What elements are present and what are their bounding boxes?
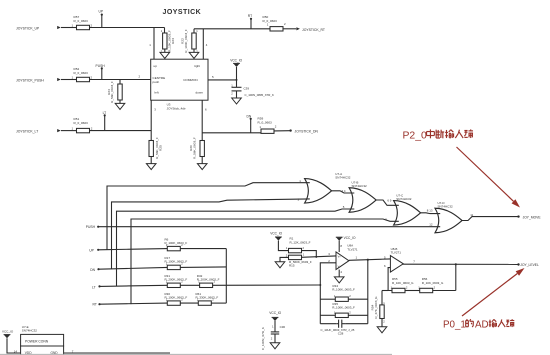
svg-text:SN74HC32: SN74HC32	[22, 328, 38, 332]
svg-text:C_100N_X7R_K: C_100N_X7R_K	[261, 326, 265, 350]
svg-text:VCC_IO: VCC_IO	[230, 58, 242, 62]
svg-text:JOY_LEVEL: JOY_LEVEL	[520, 263, 539, 267]
svg-text:POWER CONN: POWER CONN	[25, 340, 49, 344]
svg-text:push: push	[153, 80, 160, 84]
svg-text:SN74HC32: SN74HC32	[335, 175, 351, 179]
svg-text:R_100K_0603_F: R_100K_0603_F	[332, 288, 355, 292]
svg-text:COMMON: COMMON	[183, 78, 197, 82]
svg-text:UP: UP	[99, 10, 104, 14]
svg-text:R_0_0603: R_0_0603	[258, 121, 273, 125]
svg-text:JOYSTICK_DN: JOYSTICK_DN	[295, 130, 319, 134]
svg-text:JOYSTICK_PUSH: JOYSTICK_PUSH	[16, 78, 44, 82]
svg-text:11: 11	[470, 213, 473, 217]
svg-text:R20: R20	[189, 145, 193, 151]
svg-text:R25: R25	[158, 145, 162, 151]
svg-text:JOY_MOVE: JOY_MOVE	[523, 215, 542, 219]
svg-text:left: left	[155, 90, 159, 94]
svg-text:LT: LT	[103, 111, 107, 115]
svg-text:R_10K_0603_G: R_10K_0603_G	[422, 281, 444, 285]
svg-text:right: right	[194, 64, 200, 68]
svg-text:P2_0: P2_0	[403, 130, 427, 141]
svg-text:R_100K_0603_F: R_100K_0603_F	[165, 241, 188, 245]
svg-text:3 4: 3 4	[342, 189, 346, 193]
svg-text:PUSH: PUSH	[86, 225, 96, 229]
svg-text:JOYStick_4dir: JOYStick_4dir	[167, 106, 186, 110]
svg-text:R23: R23	[171, 38, 175, 44]
svg-text:R_0_0603: R_0_0603	[74, 71, 89, 75]
svg-text:12: 12	[429, 223, 433, 227]
svg-text:R54: R54	[371, 304, 375, 310]
svg-text:R_56K_0603_F: R_56K_0603_F	[193, 137, 197, 159]
svg-text:SN74HC32: SN74HC32	[352, 184, 368, 188]
svg-text:JOYSTICK_LT: JOYSTICK_LT	[16, 129, 38, 133]
svg-text:R24: R24	[107, 89, 111, 95]
svg-text:AD: AD	[475, 319, 489, 330]
svg-text:V-: V-	[338, 265, 341, 268]
svg-text:R_12K_0603_F: R_12K_0603_F	[290, 240, 311, 244]
svg-text:SN74HC32: SN74HC32	[396, 197, 412, 201]
svg-text:R22: R22	[180, 38, 184, 44]
svg-text:C39: C39	[244, 86, 250, 90]
svg-text:TLV271: TLV271	[347, 247, 358, 251]
svg-text:R_100K_0603_F: R_100K_0603_F	[165, 260, 188, 264]
svg-text:UP: UP	[89, 249, 94, 253]
svg-text:VCC_IO: VCC_IO	[344, 236, 356, 240]
svg-text:6 9: 6 9	[387, 199, 391, 203]
svg-text:R_200K_0603_F: R_200K_0603_F	[165, 278, 188, 282]
svg-text:R_0_0603: R_0_0603	[74, 121, 89, 125]
svg-text:TLV271: TLV271	[391, 251, 402, 255]
svg-text:R_47K_0603_G: R_47K_0603_G	[374, 296, 378, 319]
svg-text:JOYSTICK_UP: JOYSTICK_UP	[16, 26, 40, 30]
svg-text:V+: V+	[338, 255, 342, 258]
svg-text:RT: RT	[93, 303, 97, 307]
svg-text:PUSH: PUSH	[96, 64, 106, 68]
svg-text:R_0_0603: R_0_0603	[263, 19, 278, 23]
svg-text:JOYSTICK: JOYSTICK	[163, 9, 202, 16]
svg-text:R_10K_0603_G: R_10K_0603_G	[392, 281, 414, 285]
svg-text:C30: C30	[280, 325, 286, 329]
svg-text:R_100K_0603_F: R_100K_0603_F	[184, 29, 188, 53]
svg-text:LT: LT	[92, 285, 96, 289]
svg-text:R_100K_0603_F: R_100K_0603_F	[332, 306, 355, 310]
svg-text:VCC_IO: VCC_IO	[269, 311, 281, 315]
svg-text:VCC_IO: VCC_IO	[2, 329, 14, 333]
svg-text:14: 14	[14, 349, 18, 353]
svg-text:R_200K_0603_F: R_200K_0603_F	[197, 278, 220, 282]
svg-text:R_330K_0603_F: R_330K_0603_F	[196, 295, 219, 299]
svg-text:C_100N_0805_X7R_K: C_100N_0805_X7R_K	[245, 93, 274, 97]
svg-text:VCC_IO: VCC_IO	[270, 232, 282, 236]
svg-text:8 13: 8 13	[427, 209, 433, 213]
svg-text:JOYSTICK_RT: JOYSTICK_RT	[302, 28, 325, 32]
svg-text:RT: RT	[248, 14, 252, 18]
svg-text:C28: C28	[338, 332, 344, 336]
svg-text:down: down	[196, 90, 204, 94]
svg-text:R_100K_0603_F: R_100K_0603_F	[165, 295, 188, 299]
svg-text:up: up	[154, 64, 158, 68]
svg-text:R15: R15	[289, 264, 295, 268]
svg-text:P0_1: P0_1	[443, 319, 466, 330]
svg-text:DN: DN	[90, 268, 95, 272]
svg-text:SN74HC32: SN74HC32	[438, 204, 454, 208]
svg-text:R_0_0603: R_0_0603	[74, 19, 89, 23]
